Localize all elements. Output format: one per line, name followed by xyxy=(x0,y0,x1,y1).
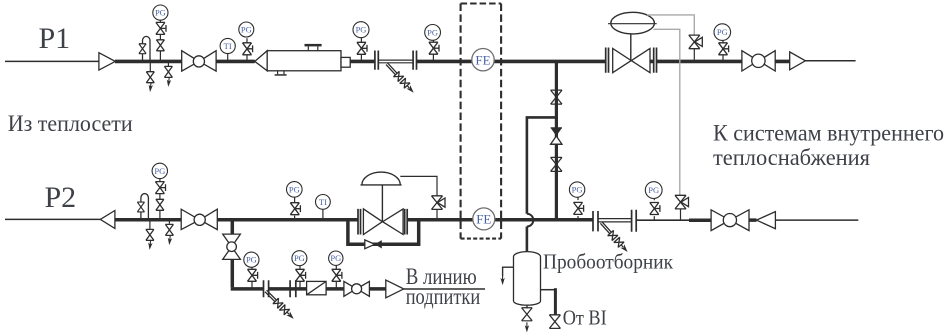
pressure gauge PG7 xyxy=(287,182,303,198)
impulse valve on supply xyxy=(689,35,703,59)
bypass riser wire xyxy=(555,61,558,219)
sampler inlet wire from BI xyxy=(541,289,555,291)
pressure gauge PG9 xyxy=(645,182,662,199)
regulator valve body xyxy=(613,49,650,73)
measuring spool return xyxy=(598,219,632,222)
svg-text:PG: PG xyxy=(294,253,305,263)
elevator body xyxy=(267,51,341,71)
bypass valve middle half closed xyxy=(551,128,562,144)
sampler overflow arrow xyxy=(500,275,504,285)
wire makeup outlet xyxy=(404,288,485,290)
flange pair F1 xyxy=(375,51,378,70)
line jump over return xyxy=(527,214,533,227)
flow element FE2 xyxy=(473,208,495,230)
svg-text:PG: PG xyxy=(246,255,257,265)
svg-text:Пробоотборник: Пробоотборник xyxy=(543,250,674,274)
svg-text:PG: PG xyxy=(289,184,300,194)
flange pair return F3 xyxy=(593,211,598,231)
gauge PG8 stem xyxy=(577,197,579,220)
svg-text:PG: PG xyxy=(427,27,438,37)
ball valve V2 supply xyxy=(742,51,775,71)
gauge PGb3 stem xyxy=(335,265,337,289)
pressure gauge PG8 xyxy=(569,182,584,197)
elevator nozzle xyxy=(305,44,322,51)
svg-text:PG: PG xyxy=(241,25,252,35)
wire return outlet thin xyxy=(775,219,858,221)
gauge cock PG6 xyxy=(155,182,165,194)
sampler drain valve xyxy=(522,308,533,321)
gauge PG6 stem xyxy=(159,179,161,220)
gauge cock PGb3 xyxy=(332,269,342,281)
sampler drain arrow xyxy=(525,322,529,332)
sampler overflow wire xyxy=(503,267,514,276)
wire supply outlet thin xyxy=(805,60,855,62)
drain assembly makeup xyxy=(263,288,297,322)
svg-text:PG: PG xyxy=(330,253,341,263)
gauge PG9 stem xyxy=(653,198,655,220)
flow triangle makeup xyxy=(386,280,404,298)
metering boundary dashed box xyxy=(461,4,502,239)
pressure gauge PG5 xyxy=(714,24,731,41)
gauge cock PG1 xyxy=(156,22,166,34)
measuring spool supply xyxy=(378,60,413,63)
svg-text:подпитки: подпитки xyxy=(406,284,481,309)
flow triangle supply outlet xyxy=(790,52,806,70)
gauge PGb1 stem xyxy=(251,267,253,289)
pressure gauge PG1 xyxy=(153,5,168,20)
wire to sampler xyxy=(526,227,529,252)
elevator outlet reducer xyxy=(341,57,350,67)
flange pair return F4 xyxy=(632,210,637,232)
ball valve V4 return xyxy=(711,210,749,231)
gauge PG4 stem xyxy=(432,40,434,61)
svg-text:PG: PG xyxy=(572,185,583,195)
svg-text:К системам внутреннего: К системам внутреннего xyxy=(713,121,944,146)
svg-text:FE: FE xyxy=(476,212,491,227)
drain stem A P2 xyxy=(149,220,151,229)
svg-text:TI: TI xyxy=(319,197,327,207)
impulse line B to return xyxy=(654,29,680,195)
control valve stem xyxy=(381,185,383,222)
gauge PGb2 stem xyxy=(299,266,301,289)
pressure gauge PGb2 xyxy=(292,251,307,266)
flow direction triangle return xyxy=(100,211,115,229)
gauge cock PGb2 xyxy=(296,269,306,281)
gauge cock PG2 xyxy=(243,43,253,55)
svg-text:P1: P1 xyxy=(39,22,71,55)
regulator actuator ellipse xyxy=(608,12,657,34)
svg-text:FE: FE xyxy=(475,52,490,67)
drain valve B P1 xyxy=(167,61,169,66)
drain arrow B P1 xyxy=(166,77,171,88)
bypass tee wire to sampler xyxy=(527,117,557,213)
valve От ВI xyxy=(549,315,560,329)
svg-text:TI: TI xyxy=(224,41,232,51)
check valve bypass xyxy=(365,240,382,249)
pressure gauge PG6 xyxy=(152,163,167,178)
sampler vessel xyxy=(514,252,541,306)
drain assembly supply xyxy=(384,61,417,95)
control valve bypass wire xyxy=(348,220,419,245)
svg-text:Из теплосети: Из теплосети xyxy=(8,111,133,136)
drain valve B P2 xyxy=(168,220,170,224)
gauge cock PGb1 xyxy=(248,269,258,281)
svg-text:теплоснабжения: теплоснабжения xyxy=(713,145,870,170)
control valve flange right xyxy=(405,209,408,235)
regulator flange left xyxy=(606,48,609,73)
control valve impulse line xyxy=(400,176,437,196)
wire supply main P1 thick xyxy=(115,60,790,64)
makeup ball valve vertical xyxy=(223,234,241,259)
bypass valve upper xyxy=(551,90,562,104)
pressure gauge PGb1 xyxy=(244,252,259,267)
drain valve A P2 xyxy=(146,229,154,240)
pressure gauge PG2 xyxy=(239,22,254,37)
control valve impulse valve xyxy=(432,196,446,220)
control valve flange left xyxy=(358,209,361,235)
wire return main P2 thick xyxy=(115,218,757,222)
flow triangle return xyxy=(757,212,776,229)
impulse valve on return xyxy=(675,195,689,220)
drain valve A P1 xyxy=(146,72,154,83)
drain arrow B P2 xyxy=(167,235,172,246)
ball valve V1 supply xyxy=(182,51,216,71)
regulator stem xyxy=(630,34,632,61)
siphon loop P1 xyxy=(143,36,151,61)
gauge cock PG5 xyxy=(719,43,729,55)
svg-text:PG: PG xyxy=(154,166,165,176)
strainer makeup xyxy=(307,281,327,294)
gauge cock PG3 xyxy=(357,42,367,54)
ball valve V3 return xyxy=(181,209,217,229)
flange pair makeup 1 xyxy=(264,280,269,297)
svg-text:PG: PG xyxy=(717,27,728,37)
regulator flange right xyxy=(654,48,657,73)
pressure gauge PG4 xyxy=(425,25,441,41)
gauge cock PG9 xyxy=(650,203,660,215)
gauge cock PG8 xyxy=(574,202,584,214)
makeup branch wire xyxy=(231,287,386,291)
gauge cock PG4 xyxy=(429,42,439,54)
thermometer TI2 xyxy=(316,195,331,220)
wire return inlet thin xyxy=(5,218,100,220)
pressure gauge PG3 xyxy=(353,22,369,38)
gauge PG7 stem xyxy=(294,197,296,220)
thermometer TI1 xyxy=(220,38,235,61)
makeup branch riser xyxy=(231,220,235,287)
sampler drain stem xyxy=(526,306,528,309)
valve on siphon P2 xyxy=(137,202,144,212)
flow direction triangle supply xyxy=(99,53,115,70)
drain assembly return xyxy=(598,220,630,255)
svg-text:PG: PG xyxy=(648,185,659,195)
control valve dome actuator xyxy=(361,172,402,185)
pressure gauge PGb3 xyxy=(329,251,343,265)
wire supply inlet thin xyxy=(5,60,99,62)
valve under PG1 xyxy=(156,40,164,51)
ball valve makeup xyxy=(344,281,370,296)
elevator cone xyxy=(255,51,267,71)
wire return medium xyxy=(636,219,689,221)
impulse line A to supply xyxy=(647,15,694,36)
gauge PG1 stem xyxy=(159,20,161,61)
svg-text:PG: PG xyxy=(356,25,367,35)
siphon loop P2 xyxy=(141,194,149,220)
flow element FE1 xyxy=(472,49,494,71)
gauge PG2 stem xyxy=(246,38,248,61)
svg-text:P2: P2 xyxy=(45,181,77,214)
bypass valve lower xyxy=(551,157,562,171)
valve under PG6 xyxy=(156,199,164,210)
drain arrow A P1 xyxy=(148,82,153,93)
valve on siphon P1 xyxy=(139,44,146,54)
elevator support xyxy=(275,71,287,76)
gauge PG5 stem xyxy=(722,40,724,61)
flange pair makeup 2 xyxy=(290,280,296,297)
control valve body xyxy=(363,209,403,235)
svg-text:PG: PG xyxy=(155,8,166,18)
flange pair F2 xyxy=(413,51,416,70)
svg-text:От ВI: От ВI xyxy=(563,305,607,329)
drain arrow A P2 xyxy=(147,240,152,251)
gauge cock PG7 xyxy=(290,203,300,215)
drain stem A P1 xyxy=(149,61,151,71)
gauge PG3 stem xyxy=(360,38,362,62)
